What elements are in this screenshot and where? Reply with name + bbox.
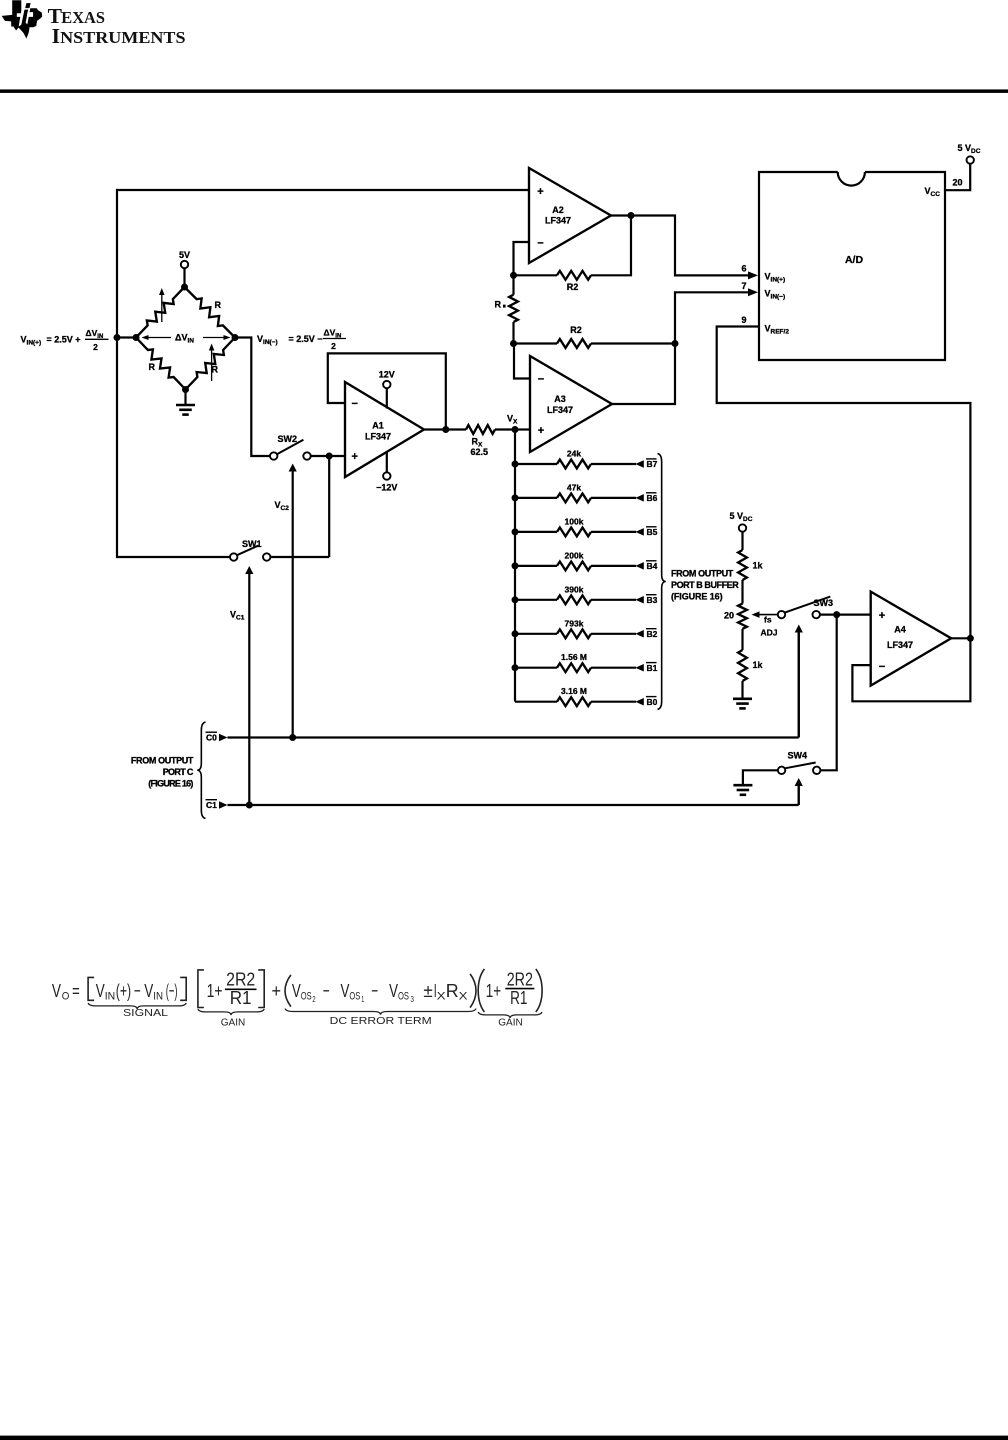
svg-text:7: 7 (741, 281, 746, 291)
svg-text:= 2.5V −: = 2.5V − (289, 334, 323, 344)
switch SW2 (270, 440, 311, 460)
formula 2R2 second (507, 968, 533, 989)
svg-text:−: − (371, 980, 378, 1001)
wire A4 output (951, 637, 970, 639)
formula plusminus (423, 980, 432, 1001)
svg-text:OS: OS (301, 991, 312, 1003)
node A top of R1 (510, 272, 517, 279)
label 24k (567, 449, 581, 459)
svg-text:V: V (52, 980, 62, 1001)
control arrow SW3 (795, 625, 803, 738)
brace port C (197, 722, 205, 819)
label A/D (845, 254, 864, 266)
op-amp A1 (345, 382, 424, 477)
svg-text:+: + (537, 186, 543, 198)
svg-text:PORT C: PORT C (163, 767, 194, 777)
resistor 390k to B3 (515, 595, 644, 604)
svg-text:LF347: LF347 (365, 432, 391, 442)
wire SW1 to junction (271, 556, 329, 558)
svg-text:A1: A1 (372, 421, 384, 431)
wire SW2 to A1 + input (311, 455, 345, 457)
label 1k upper (753, 561, 764, 571)
resistor 3.16 M to B0 (515, 697, 644, 706)
node A1 output (442, 426, 449, 433)
svg-text:R: R (446, 980, 459, 1001)
label 5V (179, 250, 190, 260)
node SW3 junction (833, 611, 840, 618)
node A4 output (967, 635, 974, 642)
TI logo wordmark TEXAS INSTRUMENTS (48, 4, 186, 48)
svg-text:C0: C0 (206, 733, 217, 743)
label C1 with overbar (206, 800, 218, 810)
svg-text:3.16 M: 3.16 M (561, 686, 587, 696)
label VIN(+) equation (21, 328, 109, 352)
label FROM OUTPUT PORT B BUFFER (671, 568, 739, 601)
resistor 793k to B2 (515, 629, 644, 638)
label SW2 (278, 434, 298, 444)
terminal 12V of A1 (383, 381, 390, 409)
svg-text:R1: R1 (510, 987, 527, 1008)
svg-text:X: X (459, 991, 469, 1003)
svg-text:DC ERROR TERM: DC ERROR TERM (330, 1015, 432, 1027)
resistor bridge top-left (variable) (136, 287, 185, 338)
node ladder junction B6 (512, 494, 519, 501)
label 5 VDC pot (730, 511, 753, 523)
svg-text:R2: R2 (567, 282, 579, 292)
svg-text:I: I (52, 24, 60, 48)
resistor R2 bottom (514, 339, 676, 348)
svg-text:R: R (212, 365, 219, 375)
label 62.5 (471, 447, 489, 457)
svg-text:A3: A3 (554, 394, 566, 404)
svg-text:B0: B0 (647, 697, 658, 707)
arrow from C1 (219, 801, 228, 809)
label R2 bottom (570, 325, 582, 335)
formula gain2 paren right (536, 969, 542, 1012)
label ADJ (761, 628, 778, 638)
label 5 VDC top right (958, 143, 981, 155)
potentiometer fs ADJ (738, 604, 747, 629)
svg-text:R: R (215, 300, 222, 310)
node ladder junction B7 (512, 461, 519, 468)
formula plus sign (272, 980, 282, 1001)
svg-text:fs: fs (764, 615, 772, 625)
label pin 9 (741, 315, 746, 325)
arrow into pin 7 (748, 288, 758, 296)
resistor 47k to B6 (515, 494, 644, 503)
terminal 5VDC pot (739, 524, 746, 531)
svg-text:R: R (149, 362, 156, 372)
label 3.16 M (561, 686, 587, 696)
node A1 plus junction (326, 453, 333, 460)
label 793k (565, 618, 584, 628)
formula dc paren left (285, 975, 291, 1007)
wire VX to A3 plus input (515, 428, 530, 430)
formula (+) (116, 980, 131, 1001)
svg-text:47k: 47k (567, 482, 581, 492)
svg-text:1k: 1k (753, 561, 764, 571)
svg-text:+: + (879, 610, 885, 622)
wire ladder bus (514, 430, 516, 702)
label R bottom-left (149, 362, 156, 372)
svg-text:100k: 100k (565, 516, 584, 526)
formula frac bar second (505, 988, 534, 990)
resistor 1k lower (738, 650, 747, 681)
resistor 1.56 M to B1 (515, 663, 644, 672)
formula gain1 bracket right (258, 970, 264, 1008)
formula (-) (166, 980, 178, 1001)
svg-text:1.56 M: 1.56 M (561, 652, 587, 662)
label B6 with overbar (646, 493, 658, 503)
formula IX (434, 980, 447, 1003)
arrow into pin 6 (748, 271, 758, 279)
label VIN(-) pin (765, 289, 786, 301)
svg-text:−: − (323, 980, 330, 1001)
switch SW1 (230, 546, 270, 561)
label R bottom-right (212, 365, 219, 375)
svg-text:9: 9 (741, 315, 746, 325)
svg-text:LF347: LF347 (547, 405, 573, 415)
brace port B (658, 454, 666, 710)
formula IN sub 1 (105, 991, 115, 1003)
svg-text:1+: 1+ (486, 980, 501, 1001)
svg-text:FROM OUTPUT: FROM OUTPUT (131, 756, 194, 766)
formula O subscript (62, 991, 70, 1003)
svg-text:24k: 24k (567, 449, 581, 459)
formula underbrace DC ERROR TERM (285, 1009, 476, 1027)
wire SW1 row left (117, 556, 234, 558)
formula R1 second (510, 987, 527, 1008)
formula minus 3 (371, 980, 378, 1001)
svg-text:2: 2 (331, 341, 336, 351)
svg-text:−: − (538, 374, 544, 386)
label B3 with overbar (646, 595, 658, 605)
svg-text:=: = (72, 980, 80, 1001)
resistor R1 (509, 275, 518, 343)
formula IN sub 2 (153, 991, 163, 1003)
label VCC (925, 186, 941, 198)
svg-text:B5: B5 (647, 527, 658, 537)
node bridge bottom vertex (182, 386, 189, 393)
svg-text:O: O (62, 991, 70, 1003)
formula signal bracket right (180, 977, 186, 1000)
svg-text:A4: A4 (894, 625, 906, 635)
svg-text:+: + (272, 980, 282, 1001)
svg-text:+: + (538, 425, 544, 437)
svg-text:20: 20 (953, 178, 963, 188)
svg-text:ADJ: ADJ (761, 628, 778, 638)
formula RX (446, 980, 469, 1003)
switch SW3 (778, 597, 831, 619)
formula underbrace SIGNAL (88, 1003, 186, 1019)
svg-text:−: − (352, 398, 358, 410)
svg-text:B2: B2 (647, 629, 658, 639)
label VIN(+) pin (765, 272, 786, 284)
top horizontal rule (0, 89, 1008, 93)
label R1 (495, 300, 506, 310)
formula frac bar first (225, 988, 257, 990)
formula signal bracket left (88, 977, 94, 1000)
resistor 200k to B4 (515, 562, 644, 571)
label SW3 (814, 598, 834, 608)
svg-text:−: − (537, 238, 543, 250)
svg-text:3: 3 (411, 995, 415, 1004)
formula gain2 paren left (478, 969, 484, 1012)
wire C0 corner up to SW3 arrow (798, 632, 800, 738)
ground pot (733, 699, 752, 709)
resistor bridge bottom-left R (136, 338, 186, 390)
wire junction down to SW1 row (328, 456, 330, 557)
svg-text:= 2.5V +: = 2.5V + (47, 335, 81, 345)
label 100k (565, 516, 584, 526)
label SW1 (242, 539, 262, 549)
svg-text:GAIN: GAIN (221, 1017, 246, 1029)
label pin 20 (953, 178, 963, 188)
node bridge left vertex (133, 334, 140, 341)
svg-text:SW4: SW4 (788, 751, 808, 761)
formula 1+ second (486, 980, 501, 1001)
node ladder junction B1 (512, 664, 519, 671)
svg-text:1+: 1+ (207, 980, 223, 1001)
label FROM OUTPUT PORT C (131, 756, 194, 789)
svg-text:B1: B1 (647, 663, 658, 673)
svg-text:200k: 200k (565, 550, 584, 560)
node bridge right vertex (232, 334, 239, 341)
control arrow VC1 (245, 566, 253, 805)
svg-text:B4: B4 (647, 561, 658, 571)
node VC1 on C1 row (246, 802, 253, 809)
control arrow SW4 (795, 778, 803, 805)
svg-text:LF347: LF347 (887, 640, 913, 650)
svg-text:12V: 12V (379, 370, 395, 380)
svg-text:PORT B BUFFER: PORT B BUFFER (671, 580, 739, 590)
wire bridge right vertex to SW2 (235, 338, 270, 457)
formula VIN (96, 980, 105, 1001)
wire C1 corner up to SW4 arrow (798, 786, 800, 806)
terminal 5V (181, 261, 188, 287)
label SW4 (788, 751, 808, 761)
op-amp A3 (530, 356, 612, 452)
node ladder junction B5 (512, 528, 519, 535)
node A2 output (628, 212, 635, 219)
svg-text:FROM OUTPUT: FROM OUTPUT (671, 568, 734, 578)
node B bottom of R1 (510, 340, 517, 347)
formula R1 first (230, 987, 252, 1008)
svg-text:EXAS: EXAS (61, 8, 105, 27)
A/D converter box (759, 172, 945, 360)
label VC2 (275, 500, 290, 512)
formula equals (72, 980, 80, 1001)
arrow deltaVIN right (203, 335, 231, 340)
label fs (764, 615, 772, 625)
svg-text:±: ± (423, 980, 432, 1001)
wire C1 row (228, 804, 799, 806)
label 20 pot (724, 611, 734, 621)
label VC1 (230, 610, 245, 622)
formula 1+ first (207, 980, 223, 1001)
label B4 with overbar (646, 561, 658, 571)
svg-text:5V: 5V (179, 250, 190, 260)
variable arrow on top-left bridge resistor (159, 288, 165, 322)
formula underbrace GAIN 2 (478, 1012, 542, 1029)
label -12V (376, 483, 397, 493)
label B0 with overbar (646, 697, 658, 707)
formula V of VO (52, 980, 62, 1001)
node VC2 on C0 row (289, 734, 296, 741)
svg-text:6: 6 (741, 264, 746, 274)
label VX (507, 414, 518, 426)
svg-text:B3: B3 (647, 595, 658, 605)
label pin 7 (741, 281, 746, 291)
label R2 top (567, 282, 579, 292)
formula minus 1 (134, 980, 141, 1001)
formula VOS2 (292, 980, 316, 1004)
op-amp A2 (529, 168, 611, 263)
ground bridge (176, 390, 195, 415)
node bridge top vertex (181, 284, 188, 291)
node R2 bottom right junction (672, 340, 679, 347)
svg-text:B6: B6 (647, 493, 658, 503)
svg-text:1k: 1k (753, 660, 764, 670)
wire SW3 to A4 plus (820, 613, 870, 615)
control arrow VC2 (289, 464, 297, 738)
switch SW4 (778, 763, 821, 775)
wire 5VDC to 1k (741, 532, 743, 550)
svg-text:2: 2 (312, 995, 316, 1004)
svg-text:+: + (352, 451, 358, 463)
svg-text:R2: R2 (570, 325, 582, 335)
svg-text:2: 2 (93, 342, 98, 352)
resistor bridge bottom-right R (variable) (186, 338, 236, 390)
formula VOS1 (341, 980, 365, 1004)
svg-text:OS: OS (349, 991, 360, 1003)
label B5 with overbar (646, 527, 658, 537)
svg-text:793k: 793k (565, 618, 584, 628)
wire left wall (116, 189, 118, 558)
node ladder junction B2 (512, 630, 519, 637)
pot wiper arrow (752, 611, 778, 618)
wire 1k lower to ground (741, 681, 743, 698)
resistor bridge top-right R (185, 287, 236, 338)
label B1 with overbar (646, 663, 658, 673)
svg-text:SIGNAL: SIGNAL (123, 1007, 168, 1019)
op-amp A4 (871, 592, 952, 686)
svg-text:(+): (+) (116, 980, 131, 1001)
svg-text:(FIGURE 16): (FIGURE 16) (148, 779, 193, 789)
svg-text:(−): (−) (166, 980, 178, 1001)
formula underbrace GAIN 1 (198, 1009, 264, 1029)
wire A4 feedback (852, 638, 970, 701)
arrow from C0 (219, 734, 228, 742)
label 200k (565, 550, 584, 560)
wire C0 row (228, 736, 799, 738)
svg-text:IN: IN (153, 991, 163, 1003)
svg-text:SW2: SW2 (278, 434, 298, 444)
label 1k lower (753, 660, 764, 670)
wire 1k to pot (741, 580, 743, 604)
svg-text:(FIGURE 16): (FIGURE 16) (671, 592, 723, 602)
variable arrow on bottom-right bridge resistor (209, 344, 215, 382)
label 47k (567, 482, 581, 492)
wire A3 minus input (514, 344, 530, 379)
label VIN(-) equation (257, 328, 346, 352)
svg-text:OS: OS (398, 991, 409, 1003)
svg-text:R: R (495, 300, 502, 310)
node VX (512, 426, 519, 433)
wire VREF/2 run (717, 327, 971, 639)
wire A1 feedback loop (328, 353, 446, 429)
svg-text:LF347: LF347 (545, 216, 571, 226)
resistor 1k upper (738, 550, 747, 580)
formula minus 2 (323, 980, 330, 1001)
ground SW4 (733, 785, 752, 795)
resistor RX 62.5 (466, 425, 495, 434)
label 12V (379, 370, 395, 380)
label R top-right (215, 300, 222, 310)
wire VCC to 5VDC terminal (945, 164, 970, 190)
label B7 with overbar (646, 459, 658, 469)
formula VOS3 (389, 980, 414, 1004)
TI logo Texas state mark (2, 0, 43, 38)
wire RX to VX (495, 428, 515, 430)
svg-text:A2: A2 (552, 205, 564, 215)
resistor R2 top feedback (514, 216, 632, 280)
formula 2R2 first (226, 968, 255, 989)
wire A3 output to pin 7 (612, 292, 750, 404)
wire A1 output (424, 428, 466, 430)
svg-text:NSTRUMENTS: NSTRUMENTS (60, 28, 185, 47)
svg-text:R1: R1 (230, 987, 252, 1008)
svg-text:B7: B7 (647, 459, 658, 469)
svg-text:1: 1 (361, 995, 364, 1004)
formula gain1 bracket left (198, 970, 204, 1008)
terminal -12V of A1 (383, 452, 390, 480)
svg-text:−12V: −12V (376, 483, 397, 493)
formula dc paren right (470, 974, 476, 1008)
svg-text:62.5: 62.5 (471, 447, 489, 457)
wire SW4 left to ground (743, 770, 778, 784)
label pin 6 (741, 264, 746, 274)
formula VIN 2 (144, 980, 153, 1001)
wire top rail to A2 + input (117, 189, 529, 191)
bottom horizontal rule (0, 1436, 1008, 1440)
node ladder junction B3 (512, 596, 519, 603)
svg-text:A/D: A/D (845, 254, 864, 266)
node ladder junction B4 (512, 562, 519, 569)
terminal 5VDC top right (967, 156, 974, 163)
wire junction down to SW4 (821, 615, 837, 771)
svg-text:−: − (879, 661, 885, 673)
wire pot to 1k lower (741, 629, 743, 650)
label deltaVIN center (175, 333, 194, 345)
label RX (472, 437, 484, 449)
wire wall to bridge left vertex (117, 336, 136, 338)
node VIN(+) junction on wall (114, 334, 121, 341)
wire A2 minus input (514, 242, 530, 275)
resistor 24k to B7 (515, 460, 644, 469)
label 390k (565, 584, 584, 594)
resistor 100k to B5 (515, 528, 644, 537)
svg-text:20: 20 (724, 611, 734, 621)
svg-text:C1: C1 (206, 800, 217, 810)
svg-text:GAIN: GAIN (498, 1017, 523, 1029)
label VREF/2 pin (765, 324, 790, 336)
label B2 with overbar (646, 629, 658, 639)
svg-text:390k: 390k (565, 584, 584, 594)
arrow deltaVIN left (142, 335, 172, 340)
label 1.56 M (561, 652, 587, 662)
wire A2 output to pin 6 (611, 216, 750, 276)
